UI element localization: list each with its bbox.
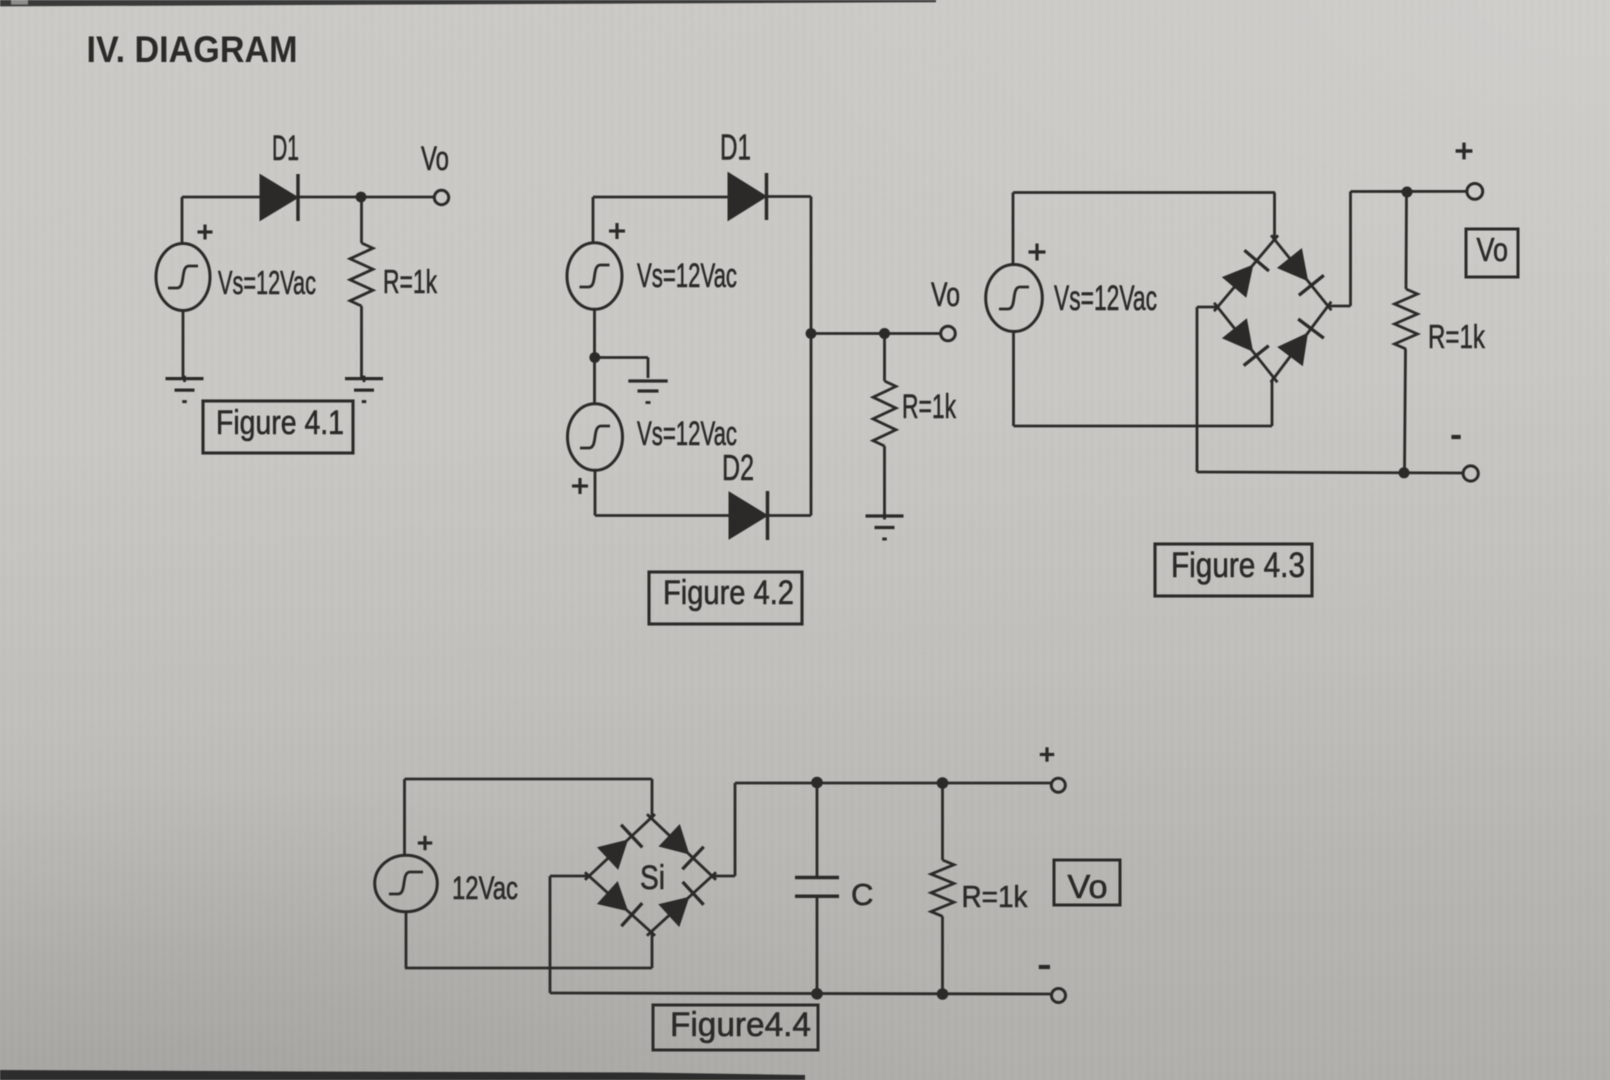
svg-text:Vs=12Vac: Vs=12Vac: [637, 257, 737, 295]
svg-text:Figure 4.2: Figure 4.2: [663, 574, 794, 612]
svg-text:Vo: Vo: [1477, 231, 1509, 268]
svg-text:Vo: Vo: [1068, 868, 1108, 905]
svg-text:R=1k: R=1k: [962, 879, 1028, 914]
svg-text:D1: D1: [720, 127, 751, 168]
svg-text:R=1k: R=1k: [1428, 318, 1485, 355]
svg-text:C: C: [851, 877, 873, 912]
svg-text:Figure 4.1: Figure 4.1: [216, 404, 344, 442]
svg-text:Si: Si: [640, 859, 665, 897]
svg-text:Vs=12Vac: Vs=12Vac: [218, 264, 316, 301]
svg-text:R=1k: R=1k: [902, 388, 957, 426]
svg-text:Figure 4.3: Figure 4.3: [1171, 546, 1305, 585]
svg-text:R=1k: R=1k: [383, 263, 437, 300]
svg-text:Figure4.4: Figure4.4: [670, 1006, 811, 1044]
svg-text:Vo: Vo: [931, 276, 960, 314]
svg-text:12Vac: 12Vac: [452, 870, 518, 906]
svg-text:D2: D2: [722, 447, 754, 488]
svg-text:D1: D1: [272, 129, 299, 168]
svg-text:Vs=12Vac: Vs=12Vac: [1054, 279, 1157, 318]
svg-text:IV. DIAGRAM: IV. DIAGRAM: [87, 29, 298, 70]
svg-text:Vo: Vo: [421, 140, 449, 178]
